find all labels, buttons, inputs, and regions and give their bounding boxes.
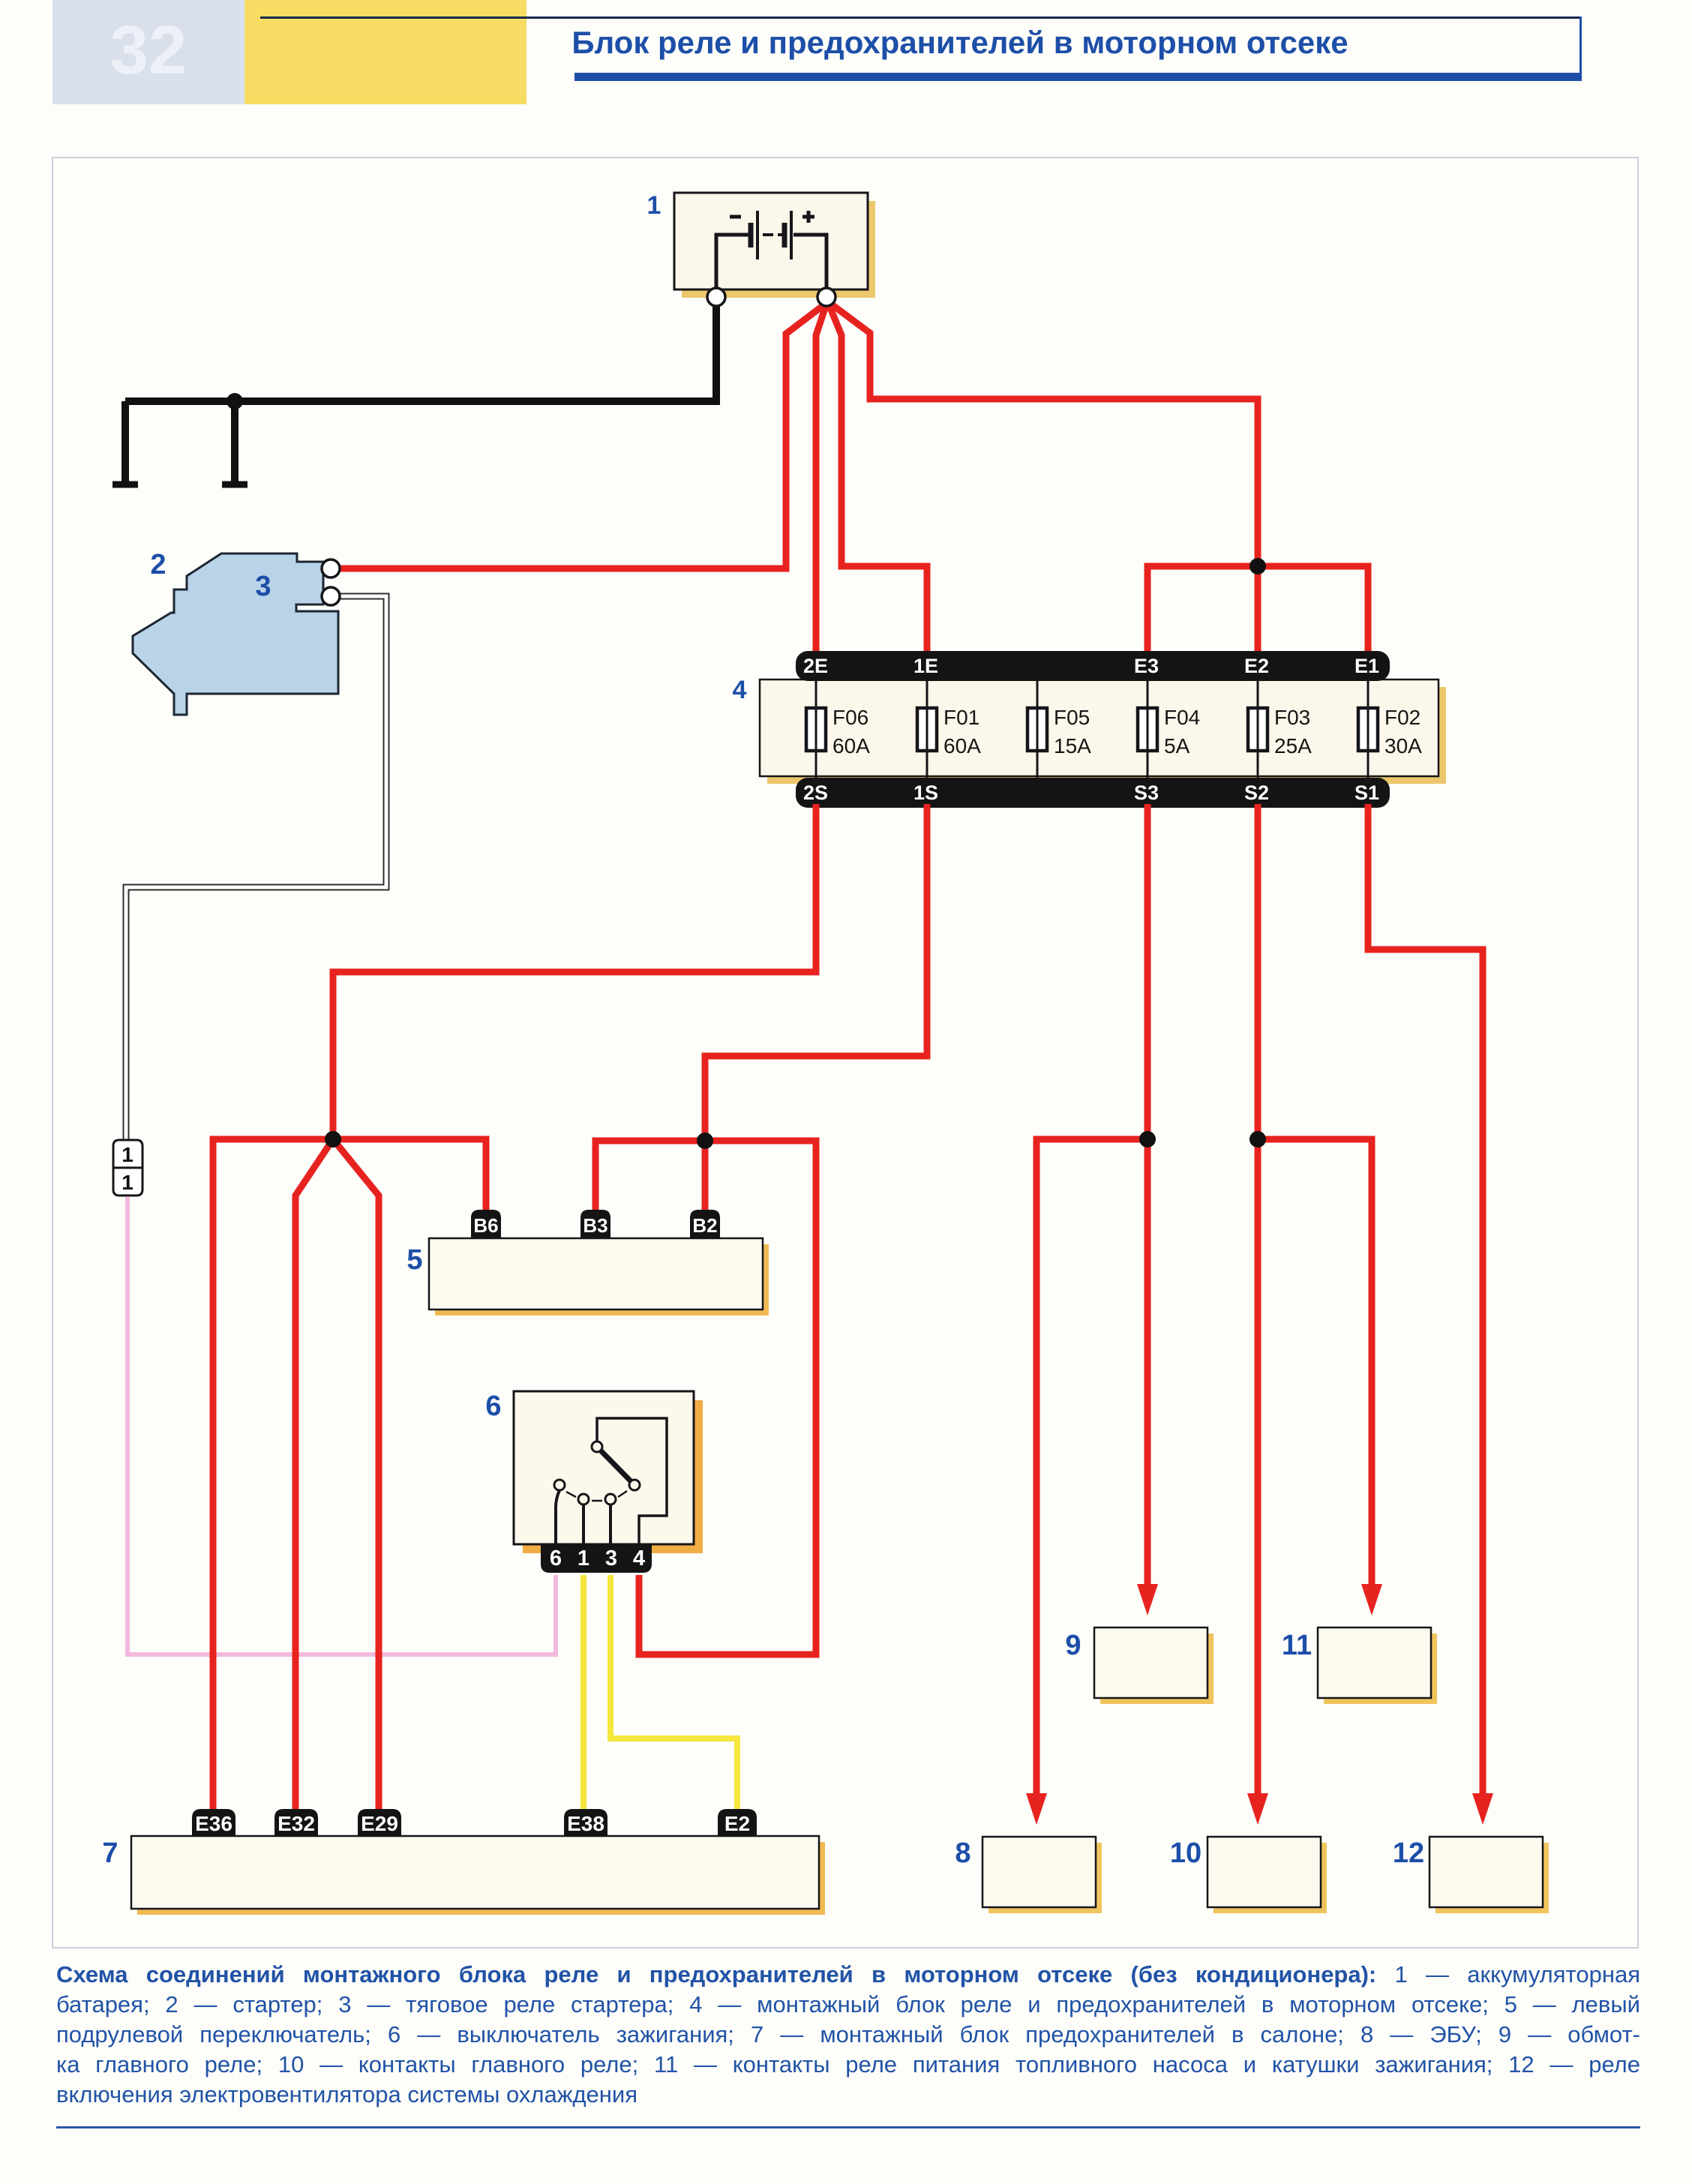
svg-text:2E: 2E [803,655,828,677]
wire battery positive to starter (red) [339,305,823,568]
svg-text:12: 12 [1393,1837,1424,1869]
ignition switch 6 [514,1391,703,1553]
terminal E29 [358,1809,401,1836]
svg-text:9: 9 [1065,1630,1081,1661]
svg-text:E32: E32 [277,1812,315,1835]
svg-text:F04: F04 [1164,706,1200,729]
svg-text:7: 7 [102,1837,118,1869]
svg-text:B6: B6 [473,1214,498,1237]
svg-text:E2: E2 [1244,655,1269,677]
wire battery negative to ground bus (black) [125,300,716,401]
terminal E2 [718,1809,757,1836]
svg-text:5A: 5A [1164,734,1190,757]
wire battery positive to fuse 2E (red) [816,306,826,655]
svg-text:60A: 60A [943,734,981,757]
svg-text:1: 1 [121,1171,133,1194]
box 5 label [406,1244,422,1276]
ignition switch pin band 6 1 3 4 [541,1544,652,1573]
svg-text:4: 4 [633,1546,645,1570]
wire junction to E29 (red) [333,1139,379,1810]
svg-text:25A: 25A [1274,734,1312,757]
svg-text:8: 8 [955,1837,970,1869]
svg-text:30A: 30A [1384,734,1422,757]
svg-text:S3: S3 [1134,781,1159,804]
wire junction to ignition pin 4 (red) [639,1141,816,1654]
svg-text:E36: E36 [195,1812,232,1835]
svg-text:6: 6 [485,1390,501,1422]
svg-text:1: 1 [647,191,661,220]
battery terminal positive [817,288,835,306]
fuse F05 15A [1027,679,1091,778]
diagram frame [52,157,1638,1948]
wire S2 branch to fuel pump relay contacts 11 (red, arrow) [1258,1139,1382,1615]
svg-text:F06: F06 [832,706,868,729]
solenoid label 3 [255,571,271,602]
interior fuse box 7 [131,1836,825,1915]
svg-text:B3: B3 [583,1214,607,1237]
wire junction to B2 (red) [702,1141,709,1211]
svg-text:3: 3 [605,1546,617,1570]
box 10 label [1170,1837,1201,1869]
starter terminal solenoid [322,587,340,605]
terminal B6 [471,1210,501,1238]
svg-text:4: 4 [733,676,747,704]
svg-text:60A: 60A [832,734,870,757]
starter 2 with solenoid 3 [133,553,338,715]
node E2 branch junction [1249,558,1266,574]
fuse block 4 body [760,679,1446,784]
fuse F04 5A [1138,679,1200,778]
svg-text:B2: B2 [692,1214,717,1237]
svg-text:1: 1 [577,1546,589,1570]
wire S1 to fan relay 12 (red, arrow) [1368,804,1493,1825]
svg-text:3: 3 [255,571,271,602]
terminal B2 [690,1210,720,1238]
fuse block 4 bottom terminal band [796,778,1390,808]
ECU box 8 [982,1837,1102,1913]
battery 1 [674,193,875,298]
svg-text:E1: E1 [1354,655,1379,677]
node S2 junction dot [1249,1131,1266,1147]
column switch box 5 [429,1238,769,1315]
wire starter solenoid control (gray double line) [126,596,386,1139]
svg-text:F01: F01 [943,706,979,729]
starter terminal battery [322,559,340,577]
main relay contacts box 10 [1207,1837,1327,1913]
wire 2S to left junction (red) [333,804,816,1139]
svg-text:S1: S1 [1354,781,1379,804]
fuse F03 25A [1248,679,1312,778]
fan relay box 12 [1429,1837,1549,1913]
svg-text:6: 6 [550,1546,562,1570]
node junction 2S dot [325,1131,341,1147]
fuse F01 60A [917,679,981,778]
battery terminal negative [707,288,725,306]
wire ignition pin 1 to E38 (yellow) [580,1575,586,1810]
svg-text:11: 11 [1282,1630,1312,1661]
svg-text:1: 1 [121,1143,133,1166]
fuse F02 30A [1358,679,1422,778]
box 9 label [1065,1630,1081,1661]
terminal E36 [192,1809,235,1836]
ignition switch label 6 [485,1390,501,1422]
relay coil box 9 [1094,1627,1213,1704]
wire battery positive to E2 (red) [832,304,1258,655]
svg-text:F02: F02 [1384,706,1420,729]
wire ignition pin 3 to E2 (yellow) [610,1575,737,1810]
box 12 label [1393,1837,1424,1869]
wire 1S to right junction (red) [705,804,927,1141]
wire battery positive to fuse 1E (red) [829,306,927,655]
starter label 2 [150,549,166,580]
wire E3-E2-E1 branch (red) [1147,566,1368,655]
wire junction to E32 (red) [295,1139,333,1810]
wire S3 branch to ECU 8 (red, arrow) [1026,1139,1147,1825]
fuse block label 4 [733,676,747,704]
wire pink connector to ignition pin 6 [127,1197,556,1654]
svg-text:F03: F03 [1274,706,1310,729]
svg-text:2: 2 [150,549,166,580]
svg-text:E38: E38 [567,1812,604,1835]
wire S3 down to relay coil 9 (red, arrow) [1137,804,1158,1615]
fuse block 4 top terminal band [796,651,1390,681]
terminal B3 [580,1210,610,1238]
ground symbol left [112,401,138,484]
svg-text:5: 5 [406,1244,422,1276]
box 11 label [1282,1630,1312,1661]
wire S2 down to main relay contacts 10 (red, arrow) [1247,804,1268,1825]
svg-text:S2: S2 [1244,781,1269,804]
relay contacts box 11 [1318,1627,1437,1704]
node S3 junction dot [1139,1131,1156,1147]
svg-text:E3: E3 [1134,655,1159,677]
box 8 label [955,1837,970,1869]
fuse F06 60A [806,679,870,778]
ground symbol center [222,401,247,484]
box 7 label [102,1837,118,1869]
ground node junction dot [226,393,243,409]
svg-text:E29: E29 [361,1812,398,1835]
svg-text:E2: E2 [724,1812,750,1835]
terminal E38 [564,1809,607,1836]
connector 1/1 [113,1140,142,1195]
svg-text:1S: 1S [913,781,938,804]
svg-text:15A: 15A [1054,734,1091,757]
svg-text:10: 10 [1170,1837,1201,1869]
wire junction to E36 (red) [213,1139,333,1810]
svg-text:2S: 2S [803,781,828,804]
terminal E32 [274,1809,318,1836]
wire junction to B3 (red) [595,1141,705,1211]
svg-text:1E: 1E [913,655,938,677]
node junction 1S dot [697,1132,713,1149]
battery label 1 [647,191,661,220]
svg-text:F05: F05 [1054,706,1090,729]
wire junction to B6 (red) [333,1139,486,1211]
